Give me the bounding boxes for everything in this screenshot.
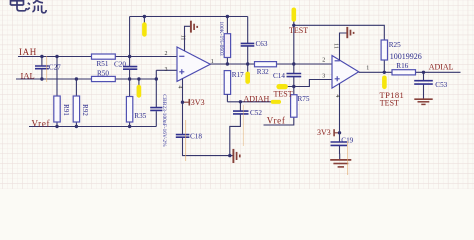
svg-text:ADIAL: ADIAL: [429, 63, 454, 72]
svg-text:TEST: TEST: [274, 89, 293, 98]
svg-text:IAL: IAL: [21, 70, 35, 80]
svg-text:R25: R25: [389, 41, 401, 49]
svg-text:ADIAH: ADIAH: [244, 95, 270, 104]
svg-text:1: 1: [366, 66, 369, 72]
svg-text:100K-1%-0603: 100K-1%-0603: [218, 21, 224, 55]
svg-text:R92: R92: [81, 104, 89, 116]
power 3V3 tap (op-amp2): [317, 128, 340, 137]
svg-text:4: 4: [177, 86, 183, 89]
wire ADIAH net: [227, 101, 281, 103]
svg-text:3V3: 3V3: [191, 98, 205, 107]
svg-text:TEST: TEST: [380, 99, 399, 108]
resistor R32: [255, 62, 277, 76]
highlight yellow capsule 7 (below output node): [382, 76, 387, 90]
wire stub below IAL at x139: [138, 79, 140, 86]
capacitor C53: [414, 72, 447, 99]
ground symbol (C18/C52): [233, 149, 239, 163]
svg-text:Vref: Vref: [267, 115, 286, 125]
ground symbol (C53): [414, 99, 432, 104]
svg-text:11: 11: [333, 43, 339, 49]
resistor R16: [392, 62, 416, 75]
svg-text:IAH: IAH: [19, 47, 37, 57]
wire top feedback op-amp1: [130, 16, 248, 18]
highlight yellow capsule 6 (ADIAH end): [271, 100, 281, 104]
highlight yellow capsule 4 (TEST top stub): [292, 8, 297, 22]
wire IAL to pin3 jog / capacitor column x156: [156, 70, 177, 126]
svg-text:TEST: TEST: [289, 26, 308, 35]
svg-text:4: 4: [334, 95, 340, 98]
svg-text:R51: R51: [97, 60, 109, 68]
pin 4 wire U1 / column to C18 and ground: [183, 79, 233, 156]
capacitor C14: [273, 72, 301, 80]
svg-text:R91: R91: [62, 104, 70, 116]
svg-text:CBB23-100nF-16V-2%: CBB23-100nF-16V-2%: [161, 94, 167, 147]
svg-text:Vref: Vref: [32, 118, 51, 128]
svg-text:R17: R17: [232, 71, 244, 79]
power 3V3 tap (op-amp1): [183, 98, 205, 107]
highlight yellow capsule 1: [142, 22, 147, 36]
ground symbol (C19): [330, 160, 351, 167]
capacitor C20: [114, 61, 137, 70]
wire output op-amp1 to op-amp2 pin2: [210, 63, 332, 65]
orange artifact line near C19: [347, 141, 349, 175]
resistor R25: [381, 40, 401, 60]
capacitor C63: [241, 17, 268, 65]
svg-text:2: 2: [165, 51, 168, 57]
svg-text:R16: R16: [396, 62, 408, 70]
resistor R92 (IAL to Vref): [73, 79, 89, 127]
wire feedback column x130 (top wire to Vref): [129, 17, 131, 127]
capacitor C18: [176, 133, 203, 141]
capacitor C19: [331, 136, 354, 145]
svg-text:C20: C20: [114, 61, 126, 69]
orange artifact line near C18: [185, 120, 187, 161]
op-amp U2: [332, 56, 359, 89]
ground symbol (op-amp1 pin11): [191, 21, 197, 33]
capacitor C52: [230, 102, 263, 156]
svg-text:11: 11: [180, 35, 186, 41]
capacitor CBB23 (pin3 to Vref): [150, 94, 167, 147]
wire stub below output at x248: [247, 64, 249, 72]
highlight yellow capsule 3: [245, 72, 250, 84]
wire top feedback op-amp2: [294, 25, 385, 72]
wire IAH net horizontal: [18, 56, 177, 58]
orange artifact line near C27: [46, 56, 48, 82]
svg-text:3V3: 3V3: [317, 128, 331, 137]
pin 4 wire U2 / column to C19: [339, 84, 341, 160]
svg-text:3: 3: [322, 74, 325, 80]
svg-text:C27: C27: [49, 64, 61, 72]
wire Vref rail: [29, 126, 156, 128]
wire IAL net horizontal: [16, 78, 156, 80]
svg-text:10019926: 10019926: [390, 52, 422, 61]
svg-text:C53: C53: [435, 81, 447, 89]
svg-text:R50: R50: [97, 70, 109, 78]
wire output op-amp2 / ADIAL net: [359, 71, 461, 73]
ground symbol (op-amp2 pin11): [347, 27, 353, 38]
svg-text:C52: C52: [250, 109, 262, 117]
svg-text:C18: C18: [190, 133, 202, 141]
resistor R35: [126, 97, 146, 123]
pin 11 wire U2: [340, 33, 347, 60]
wire TEST2 to pin3 op-amp2: [277, 80, 332, 87]
svg-text:C63: C63: [256, 40, 268, 48]
capacitor C27: [35, 57, 61, 80]
title 电流: [11, 0, 47, 13]
svg-text:R75: R75: [298, 95, 310, 103]
svg-text:3: 3: [165, 67, 168, 73]
svg-text:R35: R35: [134, 112, 146, 120]
resistor R75: [291, 95, 310, 118]
svg-text:C14: C14: [273, 72, 285, 80]
resistor R51: [92, 54, 116, 68]
resistor R17: [224, 71, 244, 102]
wire stub at node (144,16.5): [143, 17, 145, 31]
pin 11 wire U1: [185, 26, 191, 51]
highlight yellow capsule 5 (TEST2): [276, 84, 288, 89]
highlight yellow capsule 2: [137, 85, 142, 98]
resistor 100K-1%-0603 feedback: [218, 17, 231, 65]
resistor R91 (IAH to Vref): [54, 57, 70, 127]
orange artifact line near C52: [242, 105, 244, 146]
resistor R50: [92, 70, 116, 82]
wire TEST column x294: [264, 10, 294, 125]
svg-text:R32: R32: [257, 68, 269, 76]
svg-text:2: 2: [322, 57, 325, 63]
op-amp U1: [177, 47, 210, 81]
